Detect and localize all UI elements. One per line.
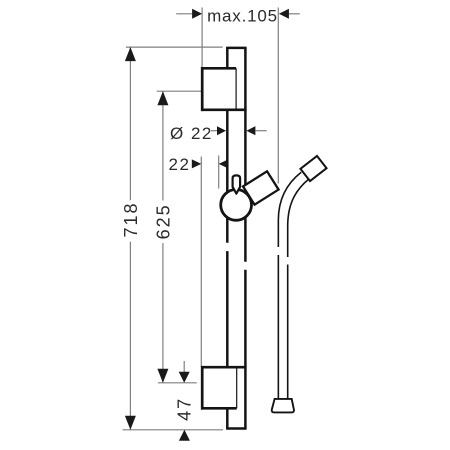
extension line 718 top bbox=[126, 46, 223, 48]
wall bar bottom edge bbox=[226, 427, 247, 430]
arrowhead 718 bottom bbox=[125, 416, 136, 430]
svg-text:22: 22 bbox=[169, 155, 191, 174]
arrowhead max105 right bbox=[279, 9, 289, 19]
arrowhead 625 top bbox=[157, 91, 168, 105]
slider holder arm bbox=[243, 171, 279, 204]
extension line mid (bracket bottom ref) bbox=[158, 382, 197, 384]
svg-text:max.105: max.105 bbox=[207, 6, 278, 25]
top wall bracket bbox=[201, 67, 247, 111]
dim tail max105 left bbox=[176, 13, 193, 15]
wall bar fill bbox=[227, 48, 245, 429]
slider lever pin bbox=[233, 175, 241, 193]
wall bar left edge upper bbox=[226, 48, 229, 243]
dimension line 625 bbox=[162, 91, 164, 200]
arrowhead max105 left bbox=[192, 9, 202, 19]
svg-text:718: 718 bbox=[121, 201, 141, 237]
arrowhead 47 top bbox=[179, 372, 190, 383]
wall bar top edge bbox=[226, 47, 247, 50]
extension line 22 left bbox=[200, 157, 202, 368]
arrowhead dia22 right bbox=[246, 126, 255, 135]
arrowhead 22 right bbox=[219, 159, 229, 168]
wall bar right edge lower bbox=[244, 270, 247, 429]
dim tail 22 right bbox=[228, 163, 238, 165]
dimension line 718 bbox=[129, 47, 131, 200]
slider knob circle bbox=[221, 190, 252, 221]
dim tail max105 right bbox=[288, 13, 300, 15]
arrowhead 22 left bbox=[192, 159, 202, 168]
wall bar left edge lower bbox=[226, 251, 229, 428]
svg-text:Ø 22: Ø 22 bbox=[170, 124, 213, 143]
shower hose lower conical fitting bbox=[272, 399, 294, 413]
shower hose upper fitting bbox=[300, 156, 326, 181]
extension line 22 right bbox=[218, 156, 220, 189]
shower hose tube bbox=[278, 172, 309, 399]
dim tail dia22 right bbox=[256, 130, 267, 132]
arrowhead 47 bottom bbox=[179, 430, 190, 441]
dim tail dia22 left bbox=[211, 130, 218, 132]
arrowhead dia22 left bbox=[217, 126, 226, 135]
bottom wall bracket bbox=[201, 366, 247, 410]
extension line max105 right bbox=[277, 8, 279, 184]
extension line 625 top bbox=[157, 90, 202, 92]
wall bar right edge upper bbox=[244, 48, 247, 262]
svg-text:47: 47 bbox=[175, 397, 195, 421]
arrowhead 625 bottom bbox=[157, 369, 168, 383]
dim tail 47 top bbox=[183, 361, 185, 374]
extension line max105 left bbox=[201, 8, 203, 68]
extension line bottom bbox=[123, 429, 224, 431]
svg-text:625: 625 bbox=[153, 203, 173, 239]
arrowhead 718 top bbox=[125, 47, 136, 61]
